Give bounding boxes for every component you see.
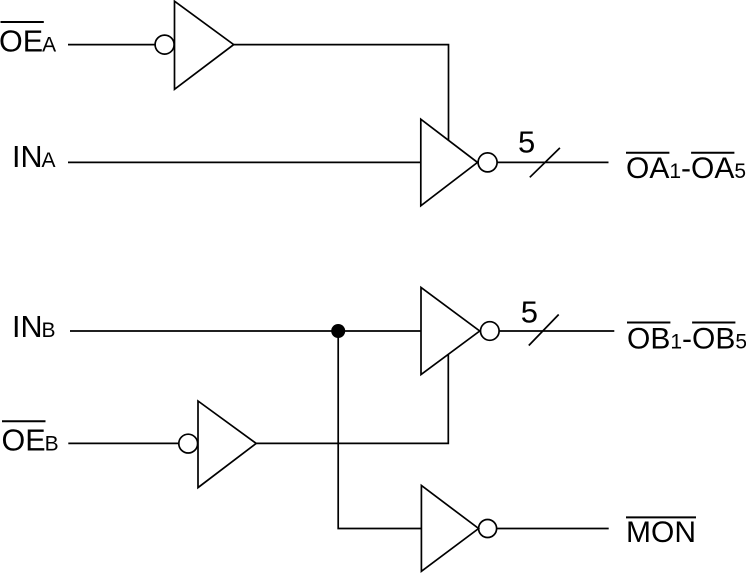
wire OA output bus	[497, 161, 608, 163]
bus slash OB	[529, 315, 559, 346]
svg-text:OEA: OEA	[0, 25, 56, 59]
svg-text:INB: INB	[12, 310, 56, 344]
wire OB output bus	[499, 330, 614, 332]
svg-text:5: 5	[518, 125, 535, 160]
junction node on INB wire	[331, 324, 345, 338]
label OB1-OB5	[627, 322, 746, 355]
buffer U3	[421, 288, 480, 375]
buffer U2	[421, 119, 478, 206]
wire junction to U5 input	[338, 331, 421, 529]
inverter U4	[198, 401, 256, 488]
label OEA	[0, 22, 56, 59]
wire OEB input	[68, 442, 179, 444]
inverter U4 input bubble	[179, 434, 198, 453]
inverter U1	[175, 1, 234, 89]
label OA1-OA5	[626, 152, 746, 185]
bus slash OA	[530, 148, 560, 177]
buffer U3 output bubble	[481, 322, 500, 341]
wire OEA input	[68, 44, 155, 46]
buffer U2 output bubble	[478, 153, 497, 172]
label MON	[626, 516, 696, 549]
svg-text:5: 5	[521, 295, 538, 330]
label OEB	[2, 421, 59, 457]
inverter U5	[421, 486, 478, 572]
wire INB input	[70, 330, 421, 332]
wire INA input	[68, 161, 421, 163]
inverter U5 output bubble	[479, 520, 497, 538]
wire U4 output to U3 enable	[256, 355, 448, 444]
inverter U1 input bubble	[155, 35, 174, 54]
wire U1 output to U2 enable	[234, 45, 449, 141]
svg-text:MON: MON	[626, 516, 696, 549]
svg-text:OA1-OA5: OA1-OA5	[626, 152, 746, 185]
svg-text:OB1-OB5: OB1-OB5	[627, 322, 746, 355]
wire MON output	[497, 528, 609, 530]
svg-text:INA: INA	[12, 140, 56, 174]
svg-text:OEB: OEB	[2, 424, 59, 458]
